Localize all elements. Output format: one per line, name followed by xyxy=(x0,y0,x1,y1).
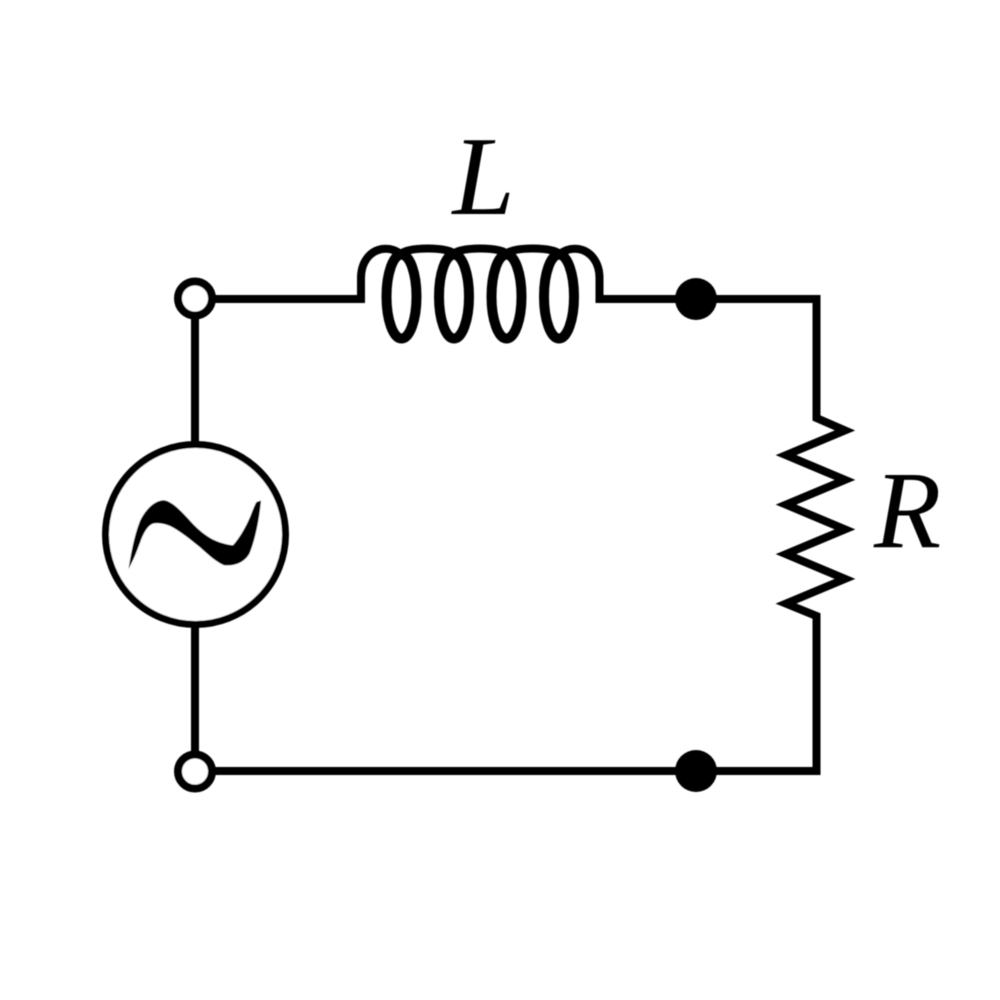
svg-text:R: R xyxy=(873,449,941,571)
svg-text:L: L xyxy=(451,115,515,239)
